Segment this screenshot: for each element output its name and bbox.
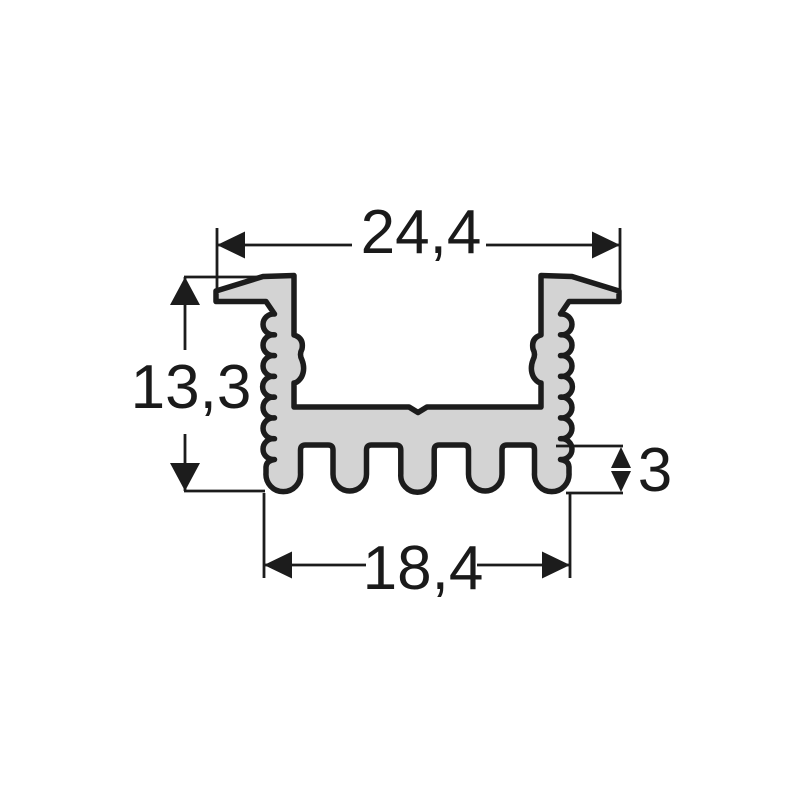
svg-text:3: 3 [638, 436, 672, 505]
arrowhead 13,3 up [170, 277, 200, 305]
dimension 18,4 line left stub [264, 564, 366, 567]
label 3 [638, 436, 672, 505]
dimension 3 line top [556, 445, 623, 448]
dimension 13,3 extension line bottom [184, 490, 265, 493]
arrowhead 3 up [611, 447, 631, 468]
arrowhead 18,4 right [542, 552, 570, 579]
svg-text:18,4: 18,4 [363, 534, 484, 603]
profile body (aluminium cross-section) [216, 276, 619, 493]
label 18,4 [363, 534, 484, 603]
dimension 24,4 extension line right [619, 228, 622, 290]
label 24,4 [361, 198, 482, 267]
dimension 13,3 line top stub [184, 277, 187, 350]
arrowhead 24,4 right [592, 232, 620, 259]
dimension 18,4 extension line right [569, 493, 572, 578]
arrowhead 24,4 left [217, 232, 245, 259]
arrowhead 13,3 down [170, 463, 200, 491]
dimension 24,4 line right stub [486, 244, 620, 247]
dimension 13,3 extension line top [184, 276, 263, 279]
dimension 13,3 line bottom stub [184, 434, 187, 491]
dimension 3 line bottom [566, 492, 623, 495]
label 13,3 [131, 353, 252, 422]
dimension 24,4 extension line left [216, 228, 219, 294]
dimension 18,4 extension line left [263, 493, 266, 578]
svg-text:13,3: 13,3 [131, 353, 252, 422]
svg-text:24,4: 24,4 [361, 198, 482, 267]
dimension 18,4 line right stub [477, 564, 570, 567]
dimension 24,4 line left stub [217, 244, 352, 247]
arrowhead 18,4 left [264, 552, 292, 579]
arrowhead 3 down [611, 471, 631, 492]
